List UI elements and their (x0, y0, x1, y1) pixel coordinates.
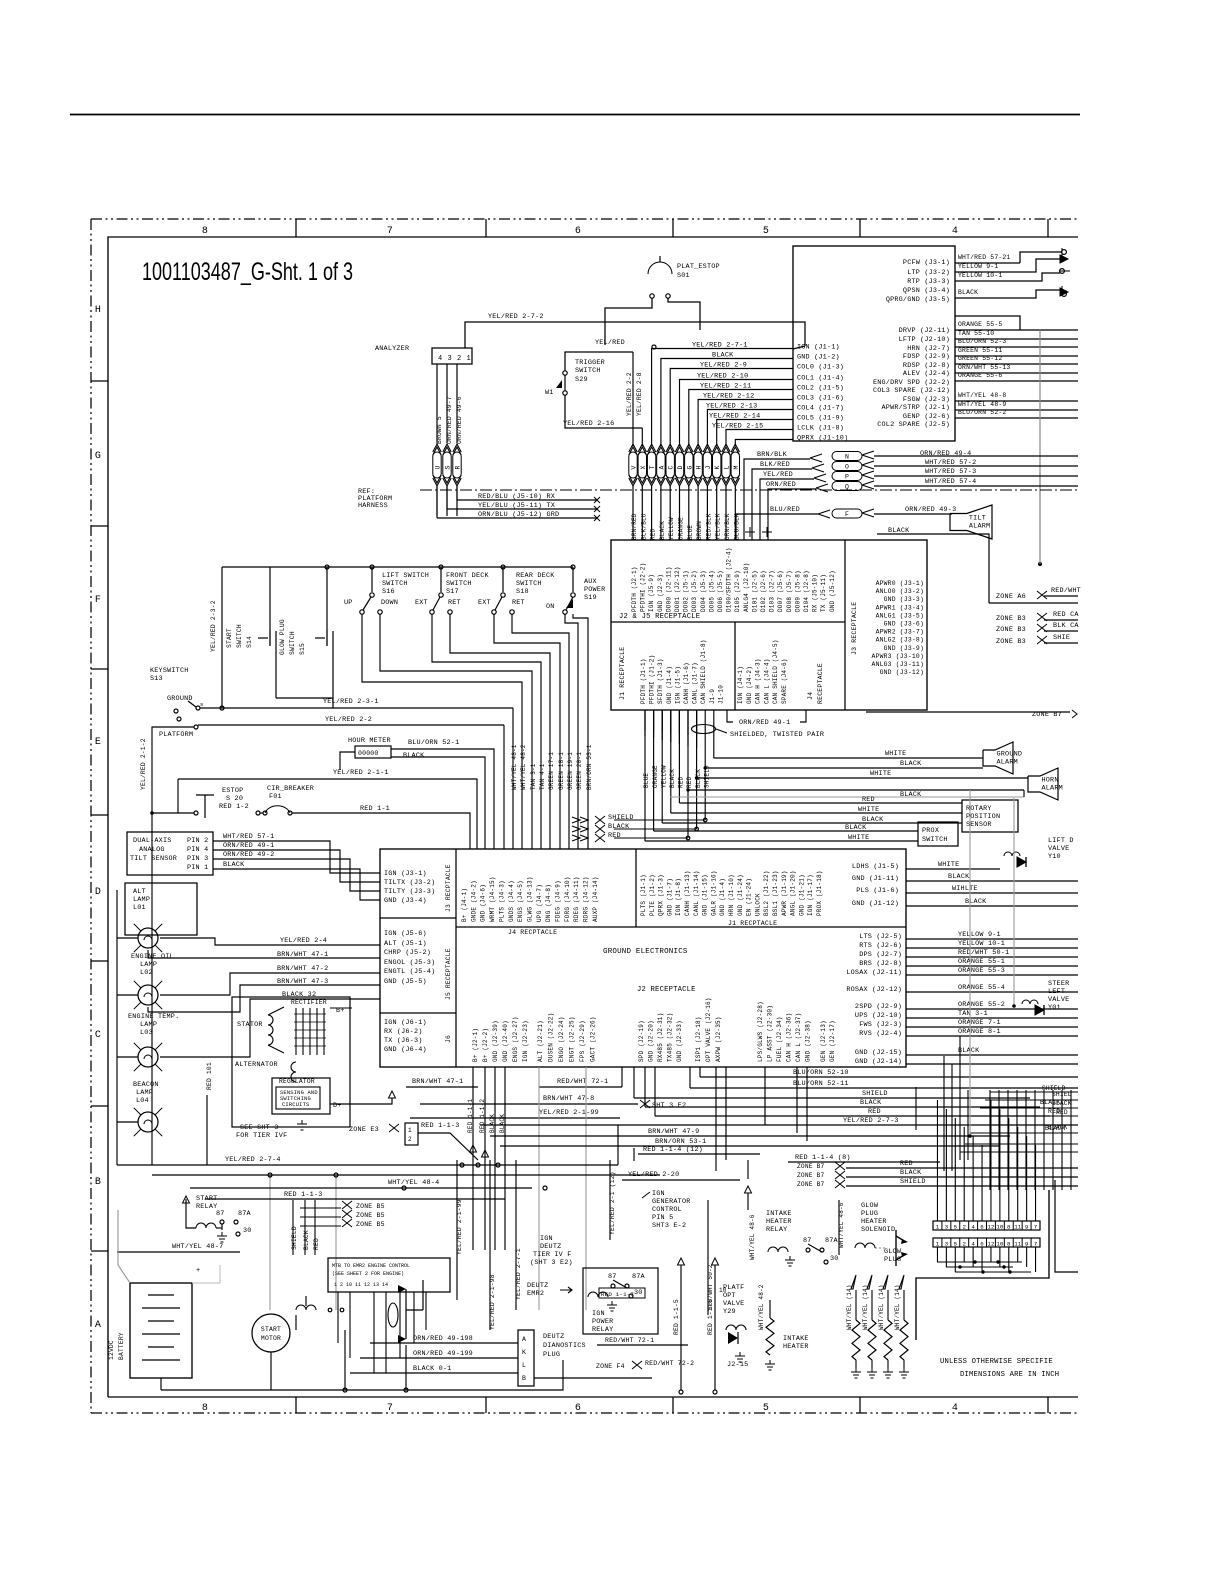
svg-text:D103 (J2-7): D103 (J2-7) (769, 570, 776, 612)
svg-text:START: START (261, 1326, 281, 1333)
svg-text:S13: S13 (150, 675, 163, 683)
svg-text:DEUTZ: DEUTZ (527, 1282, 548, 1290)
svg-text:J1 RECEPTACLE: J1 RECEPTACLE (619, 647, 626, 700)
svg-text:L: L (522, 1362, 526, 1369)
svg-text:RED/WHT: RED/WHT (1051, 587, 1081, 595)
svg-text:5: 5 (954, 1241, 958, 1248)
svg-text:SPARE (J4-6): SPARE (J4-6) (781, 658, 788, 704)
svg-text:CAN SHIELD (J4-5): CAN SHIELD (J4-5) (772, 639, 779, 704)
svg-text:10: 10 (996, 1224, 1003, 1231)
svg-text:PROX (J1-18): PROX (J1-18) (816, 870, 823, 916)
svg-text:ON: ON (546, 603, 555, 611)
svg-text:PIN 4: PIN 4 (187, 846, 208, 854)
svg-text:RED/WHT 72-2: RED/WHT 72-2 (645, 1360, 694, 1367)
svg-text:GREEN 55-11: GREEN 55-11 (958, 347, 1002, 354)
svg-text:IGN: IGN (592, 1310, 605, 1318)
harness boundary dash line (420, 489, 1078, 491)
svg-text:30: 30 (634, 1289, 643, 1297)
svg-text:SWITCH: SWITCH (516, 580, 542, 588)
svg-text:ORN/RED 49-1: ORN/RED 49-1 (739, 719, 790, 727)
svg-text:POWER: POWER (584, 586, 605, 594)
svg-text:ALT (J2-21): ALT (J2-21) (537, 1020, 544, 1062)
svg-text:8: 8 (1007, 1224, 1011, 1231)
svg-text:DO00 (J2-11): DO00 (J2-11) (665, 566, 672, 612)
svg-text:10: 10 (996, 1241, 1003, 1248)
svg-text:GND (J3-12): GND (J3-12) (880, 669, 924, 676)
tilt alarm (950, 505, 992, 539)
ground electronics module outline (380, 849, 906, 1067)
svg-text:PFDTHI (J2-2): PFDTHI (J2-2) (640, 563, 647, 612)
svg-text:D100/SFDTH (J2-4): D100/SFDTH (J2-4) (726, 547, 733, 612)
svg-text:GND (J2-20): GND (J2-20) (648, 1020, 655, 1062)
svg-text:GROUND: GROUND (997, 750, 1023, 758)
svg-text:PIN 3: PIN 3 (187, 855, 208, 863)
svg-text:YELLOW 10-1: YELLOW 10-1 (958, 940, 1005, 948)
battery plus wire gray (192, 1265, 220, 1283)
svg-text:BRN/ORN 53-1: BRN/ORN 53-1 (655, 1138, 706, 1146)
svg-text:BLUE: BLUE (687, 525, 694, 540)
svg-text:DO01 (J2-12): DO01 (J2-12) (674, 566, 681, 612)
svg-text:A: A (522, 1336, 526, 1343)
svg-text:GNDE (J4-2): GNDE (J4-2) (470, 880, 477, 922)
svg-text:GND (J2-14): GND (J2-14) (855, 1058, 902, 1066)
svg-text:IGN (J6-1): IGN (J6-1) (384, 1019, 427, 1027)
svg-text:6: 6 (980, 1241, 984, 1248)
svg-text:UNLOCK: UNLOCK (754, 893, 761, 916)
svg-text:ORANGE: ORANGE (678, 517, 685, 540)
svg-text:PLUG: PLUG (861, 1210, 878, 1218)
relay contact mid (296, 1305, 316, 1310)
svg-text:GENP (J2-6): GENP (J2-6) (903, 413, 950, 421)
svg-text:BLU/ORN 52-2: BLU/ORN 52-2 (958, 409, 1006, 416)
svg-text:COL5 (J1-9): COL5 (J1-9) (797, 415, 844, 423)
svg-text:RDRG (J4-12): RDRG (J4-12) (583, 876, 590, 922)
svg-text:BRN/WHT 47-2: BRN/WHT 47-2 (277, 965, 328, 973)
svg-text:AUX: AUX (584, 578, 597, 586)
verticals GE to bottom (943, 1056, 945, 1171)
svg-text:DEUTZ: DEUTZ (540, 1243, 561, 1251)
svg-text:CAN SHIELD (J1-8): CAN SHIELD (J1-8) (700, 639, 707, 704)
svg-text:S17: S17 (446, 588, 459, 596)
dual axis tilt sensor (127, 832, 213, 875)
svg-text:GND (J2-33): GND (J2-33) (676, 1020, 683, 1062)
svg-text:ZONE B5: ZONE B5 (356, 1203, 385, 1210)
svg-text:RED: RED (608, 832, 621, 840)
svg-text:ENGT (J2-25): ENGT (J2-25) (569, 1016, 576, 1062)
svg-text:YEL/RED 2-1-2: YEL/RED 2-1-2 (140, 738, 147, 790)
svg-text:WHITE: WHITE (938, 861, 959, 869)
pin strip 1 (933, 1221, 1040, 1230)
svg-text:ORANGE 55-3: ORANGE 55-3 (958, 967, 1005, 975)
svg-text:BRN/WHT 47-8: BRN/WHT 47-8 (543, 1095, 594, 1103)
svg-text:IGN (J1-5): IGN (J1-5) (674, 666, 681, 704)
svg-text:APWR/STRP (J2-1): APWR/STRP (J2-1) (882, 404, 950, 412)
svg-text:LAMP: LAMP (133, 896, 150, 904)
svg-text:YEL/RED: YEL/RED (595, 339, 625, 347)
svg-text:SHT3 E-2: SHT3 E-2 (652, 1222, 686, 1230)
svg-text:GLOW: GLOW (884, 1248, 902, 1256)
svg-text:ALT: ALT (133, 888, 146, 896)
svg-text:WHT/YEL 48-2: WHT/YEL 48-2 (520, 744, 527, 790)
svg-text:X: X (640, 465, 647, 469)
svg-text:POWER: POWER (592, 1318, 613, 1326)
svg-text:BATTERY: BATTERY (118, 1332, 125, 1360)
svg-text:GND (J3-3): GND (J3-3) (884, 596, 924, 603)
svg-text:GND (J1-4): GND (J1-4) (719, 878, 726, 916)
svg-text:BLACK: BLACK (659, 521, 666, 540)
svg-text:TX (J6-3): TX (J6-3) (384, 1037, 423, 1045)
svg-text:TAN 55-10: TAN 55-10 (958, 330, 994, 337)
svg-text:YEL/RED 2-4: YEL/RED 2-4 (280, 937, 327, 945)
svg-text:SHIELD: SHIELD (862, 1090, 888, 1098)
zone ticks left (91, 380, 108, 382)
svg-text:GND (J4-2): GND (J4-2) (746, 666, 753, 704)
glow transistor (896, 1230, 906, 1266)
start motor (252, 1314, 290, 1352)
connector pills U S R (433, 444, 441, 455)
svg-text:REGULATOR: REGULATOR (279, 1078, 315, 1085)
strip1 feed wires (936, 1100, 938, 1221)
svg-text:ISP1 (J2-18): ISP1 (J2-18) (695, 1016, 702, 1062)
svg-text:BLACK: BLACK (900, 1169, 922, 1177)
zone ticks bottom (295, 1397, 297, 1413)
svg-text:GENERATOR: GENERATOR (652, 1198, 691, 1206)
svg-text:WHT/YEL 48-7: WHT/YEL 48-7 (172, 1243, 223, 1251)
ign power relay box outline (583, 1268, 658, 1334)
svg-text:W1: W1 (545, 389, 554, 397)
svg-text:RED 1-1-4 (8): RED 1-1-4 (8) (795, 1154, 851, 1162)
svg-text:RED 1-1: RED 1-1 (360, 805, 390, 813)
svg-text:ESTOP: ESTOP (222, 787, 243, 795)
svg-text:TIER IV F: TIER IV F (533, 1251, 572, 1259)
svg-text:RED: RED (900, 1160, 913, 1168)
svg-text:YEL/RED 2-7-3: YEL/RED 2-7-3 (843, 1117, 899, 1125)
wires to platform connectors top right (1020, 252, 1062, 263)
svg-text:YEL/RED: YEL/RED (763, 471, 793, 479)
svg-text:BLACK: BLACK (1048, 1124, 1068, 1131)
svg-text:SHT 3 E2: SHT 3 E2 (652, 1102, 686, 1110)
svg-text:2SPD (J2-9): 2SPD (J2-9) (855, 1003, 902, 1011)
svg-text:2: 2 (408, 1136, 412, 1143)
ground alarm (983, 742, 1013, 774)
svg-text:B: B (522, 1375, 526, 1382)
svg-text:9: 9 (1025, 1224, 1029, 1231)
connector block J2 J5 receptacle (611, 540, 927, 710)
svg-text:K: K (522, 1349, 526, 1356)
svg-text:ZONE B7: ZONE B7 (797, 1172, 824, 1179)
svg-text:1: 1 (467, 355, 471, 363)
svg-text:BLACK: BLACK (223, 861, 245, 869)
svg-text:RED: RED (686, 776, 693, 788)
svg-text:LAMP: LAMP (140, 961, 157, 969)
svg-text:ENGO (J2-24): ENGO (J2-24) (558, 1016, 565, 1062)
svg-text:K: K (714, 465, 721, 469)
svg-text:FPS (J2-29): FPS (J2-29) (579, 1020, 586, 1062)
svg-text:SHIELDED, TWISTED PAIR: SHIELDED, TWISTED PAIR (730, 731, 824, 739)
svg-text:APWR2 (J3-7): APWR2 (J3-7) (876, 629, 924, 636)
svg-text:S15: S15 (299, 643, 306, 655)
svg-text:(SHT 3 E2): (SHT 3 E2) (530, 1259, 573, 1267)
svg-text:3: 3 (945, 1224, 949, 1231)
svg-text:L01: L01 (133, 904, 146, 912)
svg-text:A: A (95, 1320, 101, 1331)
svg-text:PLTE (J1-2): PLTE (J1-2) (649, 874, 656, 916)
svg-text:J5 RECEPTACLE: J5 RECEPTACLE (445, 948, 452, 1000)
svg-text:RED/BLK: RED/BLK (705, 513, 712, 540)
svg-text:5: 5 (763, 226, 769, 237)
svg-text:7: 7 (387, 226, 393, 237)
svg-text:PLATF: PLATF (723, 1284, 744, 1292)
svg-text:DO02 (J5-1): DO02 (J5-1) (683, 570, 690, 612)
svg-text:GND (J1-12): GND (J1-12) (852, 900, 899, 908)
svg-text:PFDTHI (J1-2): PFDTHI (J1-2) (649, 655, 656, 704)
svg-text:VALVE: VALVE (1048, 845, 1069, 853)
svg-text:FORG (J4-10): FORG (J4-10) (564, 876, 571, 922)
svg-text:1001103487_G-Sht. 1 of 3: 1001103487_G-Sht. 1 of 3 (142, 258, 353, 286)
svg-text:IGN (J1-17): IGN (J1-17) (807, 874, 814, 916)
deutz diagnostics plug (518, 1330, 534, 1386)
svg-text:ORN/RED 49-7: ORN/RED 49-7 (446, 396, 453, 444)
svg-text:IGN (J4-1): IGN (J4-1) (737, 666, 744, 704)
svg-text:LAMP: LAMP (136, 1089, 153, 1097)
svg-text:6: 6 (575, 226, 581, 237)
svg-text:SWITCH: SWITCH (382, 580, 408, 588)
svg-text:DRVP (J2-11): DRVP (J2-11) (899, 327, 950, 335)
alternator lower coils (291, 1062, 296, 1082)
svg-text:ENGS (J2-27): ENGS (J2-27) (512, 1016, 519, 1062)
svg-text:EXT: EXT (478, 599, 491, 607)
svg-text:G: G (95, 451, 101, 462)
svg-text:12: 12 (987, 1241, 994, 1248)
svg-text:FSGW (J2-3): FSGW (J2-3) (903, 396, 950, 404)
svg-text:START: START (226, 628, 233, 648)
svg-text:ENGINE TEMP.: ENGINE TEMP. (128, 1013, 179, 1021)
svg-text:TX (J5-11): TX (J5-11) (820, 574, 827, 612)
switch ladder output wires (362, 614, 522, 849)
svg-text:RDEG (J4-11): RDEG (J4-11) (573, 876, 580, 922)
svg-text:LCLK (J1-8): LCLK (J1-8) (797, 425, 844, 433)
svg-text:BLACK: BLACK (948, 873, 970, 881)
svg-text:RED: RED (868, 1108, 881, 1116)
bus nodes (325, 565, 329, 569)
svg-text:GND (J1-21): GND (J1-21) (798, 874, 805, 916)
svg-text:YEL/RED 2-12: YEL/RED 2-12 (703, 393, 754, 401)
svg-text:DO05 (J5-4): DO05 (J5-4) (708, 570, 715, 612)
svg-text:FRONT DECK: FRONT DECK (446, 572, 490, 580)
svg-text:G: G (686, 465, 693, 469)
svg-text:GNDS (J4-4): GNDS (J4-4) (508, 880, 515, 922)
svg-text:BROWN 5: BROWN 5 (436, 416, 443, 444)
svg-text:VALVE: VALVE (723, 1300, 744, 1308)
svg-text:S19: S19 (584, 594, 597, 602)
svg-text:YEL/RED 2-8: YEL/RED 2-8 (636, 372, 643, 416)
svg-text:B+ (J2-2): B+ (J2-2) (482, 1028, 489, 1062)
svg-text:BLACK: BLACK (965, 898, 987, 906)
svg-text:WHT/YEL (14): WHT/YEL (14) (862, 1284, 869, 1330)
svg-text:YEL/RED 2-1-1: YEL/RED 2-1-1 (333, 769, 389, 777)
svg-text:BRN/BLK: BRN/BLK (757, 451, 788, 459)
svg-text:RED 1-1-3: RED 1-1-3 (284, 1191, 323, 1199)
svg-text:30: 30 (243, 1227, 252, 1235)
svg-text:BLU/ORN 52-10: BLU/ORN 52-10 (793, 1069, 849, 1077)
svg-text:A: A (658, 465, 665, 469)
svg-text:YEL/RED 2-9: YEL/RED 2-9 (700, 362, 747, 370)
svg-text:BRN/ORN 53-1: BRN/ORN 53-1 (586, 744, 593, 790)
svg-text:TAN 3-1: TAN 3-1 (530, 763, 537, 790)
svg-text:WRMT (J4-15): WRMT (J4-15) (489, 876, 496, 922)
svg-text:J3 RECEPTACLE: J3 RECEPTACLE (851, 602, 858, 655)
wire yelred 2-2 (198, 724, 504, 726)
svg-text:RED/WHT 72-1: RED/WHT 72-1 (557, 1078, 608, 1086)
svg-text:BLU/ORN 52-11: BLU/ORN 52-11 (793, 1080, 849, 1088)
svg-text:RED 101: RED 101 (206, 1062, 213, 1090)
svg-text:WHT/RED 57-4: WHT/RED 57-4 (925, 478, 976, 486)
svg-text:MTB TO EMR2 ENGINE CONTROL: MTB TO EMR2 ENGINE CONTROL (332, 1263, 410, 1269)
svg-text:PLS (J1-6): PLS (J1-6) (856, 887, 899, 895)
svg-text:GACT (J2-26): GACT (J2-26) (590, 1016, 597, 1062)
svg-text:POSITION: POSITION (966, 813, 1000, 821)
svg-text:O: O (845, 464, 849, 471)
svg-text:ORN/RED 49-6: ORN/RED 49-6 (456, 396, 463, 444)
zone B5 marks (342, 1201, 352, 1209)
svg-text:FWS (J2-3): FWS (J2-3) (859, 1021, 902, 1029)
svg-text:SWITCH: SWITCH (446, 580, 472, 588)
svg-text:GND (J1-11): GND (J1-11) (852, 875, 899, 883)
svg-text:DO08 (J5-7): DO08 (J5-7) (786, 570, 793, 612)
svg-text:WHT/YEL 48-4: WHT/YEL 48-4 (388, 1179, 439, 1187)
svg-text:6: 6 (980, 1224, 984, 1231)
svg-text:PFDTH (J2-1): PFDTH (J2-1) (631, 566, 638, 612)
svg-text:YEL/RED 2-1-99: YEL/RED 2-1-99 (539, 1109, 599, 1117)
svg-text:J1-9: J1-9 (709, 689, 716, 704)
svg-text:YEL/RED 2-11: YEL/RED 2-11 (700, 383, 751, 391)
svg-text:FOR TIER IVF: FOR TIER IVF (236, 1132, 287, 1140)
svg-text:F: F (845, 511, 849, 518)
svg-text:8: 8 (202, 1403, 208, 1414)
svg-text:ALEV (J2-4): ALEV (J2-4) (903, 370, 950, 378)
svg-text:RX (J6-2): RX (J6-2) (384, 1028, 423, 1036)
prox switch (918, 822, 958, 846)
svg-text:J4 RECPTACLE: J4 RECPTACLE (508, 929, 557, 936)
svg-text:J6: J6 (445, 1035, 452, 1043)
svg-text:RED 1-2: RED 1-2 (219, 803, 249, 811)
svg-text:ORANGE 55-5: ORANGE 55-5 (958, 321, 1002, 328)
svg-text:SHIELD: SHIELD (291, 1226, 298, 1250)
svg-text:GEN (J2-17): GEN (J2-17) (829, 1020, 836, 1062)
svg-text:BEACON: BEACON (133, 1081, 159, 1089)
svg-text:BLACK: BLACK (403, 752, 425, 760)
svg-text:LIFT D: LIFT D (1048, 837, 1074, 845)
svg-text:M: M (733, 465, 740, 469)
svg-text:TAN 4-1: TAN 4-1 (539, 763, 546, 790)
svg-text:GND (J1-24): GND (J1-24) (737, 874, 744, 916)
svg-text:12VDC: 12VDC (108, 1340, 115, 1360)
svg-text:CAN H (J4-3): CAN H (J4-3) (755, 658, 762, 704)
svg-text:RED CA: RED CA (1053, 611, 1079, 619)
svg-text:SWITCH: SWITCH (289, 631, 296, 655)
svg-text:SWITCH: SWITCH (575, 367, 601, 375)
mtb wires down (337, 1292, 339, 1343)
svg-text:BLU/ORN 52-1: BLU/ORN 52-1 (408, 739, 459, 747)
svg-text:EMR2: EMR2 (527, 1290, 544, 1298)
svg-text:BRN/WHT 47-9: BRN/WHT 47-9 (648, 1128, 699, 1136)
svg-text:YELLOW: YELLOW (668, 517, 675, 540)
svg-text:CAN L (J2-37): CAN L (J2-37) (795, 1013, 802, 1062)
svg-text:WHT/YEL (14): WHT/YEL (14) (894, 1284, 901, 1330)
svg-text:S01: S01 (677, 272, 690, 280)
svg-text:BRN/RED: BRN/RED (631, 513, 638, 540)
svg-text:UP: UP (344, 599, 353, 607)
svg-text:GND (J2-38): GND (J2-38) (805, 1020, 812, 1062)
svg-text:4: 4 (438, 355, 442, 363)
svg-text:BLACK: BLACK (860, 1099, 882, 1107)
svg-text:F01: F01 (269, 793, 282, 801)
svg-text:PCFW (J3-1): PCFW (J3-1) (903, 259, 950, 267)
inner border (108, 237, 1078, 1397)
svg-text:87: 87 (216, 1210, 225, 1218)
svg-text:SHIELD: SHIELD (608, 814, 634, 822)
svg-text:F: F (95, 595, 101, 606)
svg-text:COL0 (J1-3): COL0 (J1-3) (797, 364, 844, 372)
svg-text:P: P (845, 474, 849, 481)
svg-text:4: 4 (971, 1224, 975, 1231)
svg-text:GND (J2-15): GND (J2-15) (855, 1049, 902, 1057)
svg-text:HORN: HORN (1042, 776, 1059, 784)
svg-text:BLACK: BLACK (712, 352, 734, 360)
svg-text:ENGINE OIL: ENGINE OIL (131, 953, 174, 961)
svg-text:DIANOSTICS: DIANOSTICS (543, 1342, 586, 1350)
svg-text:RECEPTACLE: RECEPTACLE (817, 663, 824, 704)
svg-text:DO06 (J5-5): DO06 (J5-5) (717, 570, 724, 612)
wires into ovals (744, 459, 810, 540)
svg-text:RELAY: RELAY (592, 1326, 613, 1334)
svg-text:HOUR METER: HOUR METER (348, 737, 391, 745)
wires J1 rec to GE (644, 710, 646, 736)
svg-text:WHT/RED 57-21: WHT/RED 57-21 (958, 254, 1010, 261)
svg-text:ALARM: ALARM (1042, 784, 1063, 792)
svg-text:UNLESS OTHERWISE SPECIFIE: UNLESS OTHERWISE SPECIFIE (940, 1358, 1053, 1366)
svg-text:HEATER: HEATER (783, 1343, 809, 1351)
svg-text:IGN (J2-23): IGN (J2-23) (522, 1020, 529, 1062)
svg-text:STATOR: STATOR (237, 1021, 263, 1029)
svg-text:BSL2 (J1-22): BSL2 (J1-22) (763, 870, 770, 916)
svg-text:GREEN 18-1: GREEN 18-1 (558, 752, 565, 790)
svg-text:PLTS (J4-3): PLTS (J4-3) (498, 880, 505, 922)
svg-text:QPRG/GND (J3-5): QPRG/GND (J3-5) (886, 296, 950, 304)
svg-text:BLK/RED: BLK/RED (760, 461, 790, 469)
svg-text:00000: 00000 (358, 750, 379, 757)
svg-text:WHT/YEL (14): WHT/YEL (14) (846, 1284, 853, 1330)
svg-text:TRIGGER: TRIGGER (575, 359, 605, 367)
svg-text:3: 3 (945, 1241, 949, 1248)
wires below J1 receptacle (644, 710, 646, 730)
label ORN/RED 49-1 bracket (727, 710, 733, 722)
svg-text:ZONE A6: ZONE A6 (996, 593, 1026, 601)
svg-text:CONTROL: CONTROL (652, 1206, 682, 1214)
svg-text:ANGL (J1-20): ANGL (J1-20) (790, 870, 797, 916)
svg-text:WHT/YEL 48-2: WHT/YEL 48-2 (758, 1284, 765, 1330)
svg-text:SEE SHT 3: SEE SHT 3 (240, 1124, 279, 1132)
svg-text:E: E (95, 737, 101, 748)
svg-text:GREEN 19-1: GREEN 19-1 (567, 752, 574, 790)
svg-text:ENGOL (J5-3): ENGOL (J5-3) (384, 959, 435, 967)
svg-text:6: 6 (575, 1403, 581, 1414)
svg-text:ROSAX (J2-12): ROSAX (J2-12) (846, 986, 902, 994)
keyswitch wires (200, 707, 513, 709)
svg-text:HRN (J2-7): HRN (J2-7) (907, 345, 950, 353)
svg-text:GND (J3-9): GND (J3-9) (884, 645, 924, 652)
gray drops (538, 1067, 540, 1310)
